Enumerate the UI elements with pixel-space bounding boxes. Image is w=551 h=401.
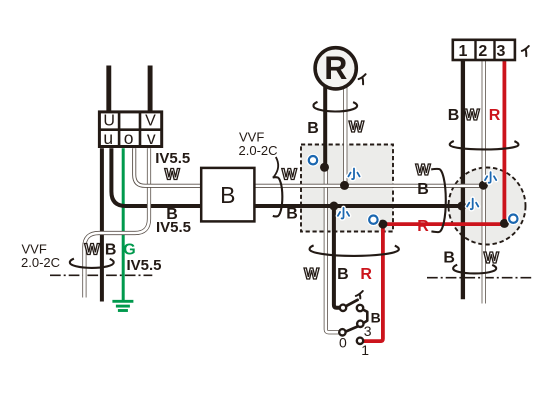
svg-text:v: v xyxy=(147,128,156,148)
cable loop under terminal block xyxy=(450,141,519,149)
three-way switch xyxy=(339,300,367,344)
svg-text:1: 1 xyxy=(361,342,369,358)
svg-text:W: W xyxy=(304,266,320,283)
cable loop left of circle (vertical) xyxy=(431,169,446,232)
svg-text:U: U xyxy=(103,112,115,129)
katakana i lamp xyxy=(359,74,366,84)
svg-text:1: 1 xyxy=(459,43,468,60)
svg-text:W: W xyxy=(484,250,500,267)
lamp receptacle R xyxy=(315,48,356,89)
svg-text:R: R xyxy=(489,107,501,124)
wire white switch return (lamp junction to switch 0) xyxy=(326,167,340,332)
transformer terminal block xyxy=(99,112,161,148)
breaker B box xyxy=(201,168,254,222)
wire white vertical right (terminal 2 down) xyxy=(482,61,486,305)
junction dot D5 (circle black) xyxy=(457,202,466,211)
svg-text:W: W xyxy=(415,162,431,179)
svg-text:W: W xyxy=(464,107,480,124)
wire black lamp down xyxy=(323,87,327,167)
junction dot D2 (white tee) xyxy=(340,181,349,190)
svg-text:R: R xyxy=(324,50,347,86)
joint box (dashed rectangle) xyxy=(301,145,393,232)
svg-text:R: R xyxy=(417,218,429,235)
cable loop under lamp xyxy=(313,102,357,112)
transformer stub V xyxy=(148,66,153,113)
svg-text:W: W xyxy=(165,167,181,184)
labels group xyxy=(21,107,501,358)
wire black u down xyxy=(100,148,104,301)
wire white breaker to circle junction xyxy=(254,184,483,188)
svg-text:B: B xyxy=(417,181,429,198)
wire black breaker to circle junction xyxy=(254,204,461,208)
wire black u to breaker xyxy=(111,148,201,206)
svg-text:V: V xyxy=(145,112,156,129)
kanji small D5 xyxy=(467,199,478,210)
svg-text:B: B xyxy=(443,249,455,266)
svg-text:B: B xyxy=(286,206,298,223)
svg-text:IV5.5: IV5.5 xyxy=(155,150,190,167)
wire red junction down to switch 1 xyxy=(363,224,383,341)
svg-text:2: 2 xyxy=(478,43,487,60)
svg-text:G: G xyxy=(123,241,135,258)
svg-text:3: 3 xyxy=(364,323,372,339)
wire green G from o to ground xyxy=(122,148,125,300)
svg-text:R: R xyxy=(360,266,372,283)
kanji small D6 xyxy=(485,172,496,183)
svg-text:B: B xyxy=(448,107,460,124)
svg-text:2.0-2C: 2.0-2C xyxy=(239,143,278,158)
wire black vertical right (terminal 1 down) xyxy=(461,61,465,300)
junction dot D6 (circle white) xyxy=(479,181,488,190)
katakana i switch xyxy=(356,291,363,298)
connector ring near D1 xyxy=(309,156,317,164)
junction dot D1 (lamp B / switch W) xyxy=(320,163,329,172)
svg-text:IV5.5: IV5.5 xyxy=(127,257,162,274)
svg-text:W: W xyxy=(84,241,100,258)
wire white lamp down xyxy=(343,86,347,185)
kanji small D3 xyxy=(338,208,349,219)
wire black junction to switch xyxy=(334,206,340,308)
kanji small D2 xyxy=(348,169,359,180)
boundary dash-dot right xyxy=(427,277,534,279)
terminal block 1 2 3 xyxy=(453,40,515,60)
transformer stub U xyxy=(106,66,111,113)
boundary dash-dot left xyxy=(50,274,152,276)
junction dot D7 (circle red) xyxy=(500,219,509,228)
svg-text:2.0-2C: 2.0-2C xyxy=(21,255,60,270)
junction dot D4 (red) xyxy=(378,220,387,229)
connector ring near D4 xyxy=(369,216,377,224)
svg-text:B: B xyxy=(371,309,381,325)
svg-text:W: W xyxy=(349,119,365,136)
joint box (dashed circle) xyxy=(449,168,526,245)
wire red terminal 3 down xyxy=(502,61,506,224)
ground symbol xyxy=(112,301,133,310)
junction dot D3 (black tee) xyxy=(329,202,338,211)
svg-text:0: 0 xyxy=(339,335,347,351)
connector ring near D7 xyxy=(509,215,517,223)
svg-text:W: W xyxy=(282,167,298,184)
svg-text:B: B xyxy=(105,241,117,258)
cable loop lower-left xyxy=(70,259,114,268)
cable loop right of breaker with pointer xyxy=(274,157,278,177)
cable loop below circle xyxy=(453,265,496,274)
katakana i terminal block xyxy=(522,46,529,56)
svg-text:B: B xyxy=(220,182,235,208)
wire white from v S-curve to lower-left xyxy=(84,148,149,299)
svg-text:B: B xyxy=(307,120,319,137)
svg-text:B: B xyxy=(337,266,349,283)
svg-text:3: 3 xyxy=(496,43,505,60)
svg-text:IV5.5: IV5.5 xyxy=(156,219,191,236)
wire red junction to right circle xyxy=(383,222,505,226)
cable loop below joint box xyxy=(310,245,399,256)
wire white from o to breaker xyxy=(134,148,201,186)
svg-text:u: u xyxy=(103,128,113,148)
svg-text:o: o xyxy=(124,128,134,148)
